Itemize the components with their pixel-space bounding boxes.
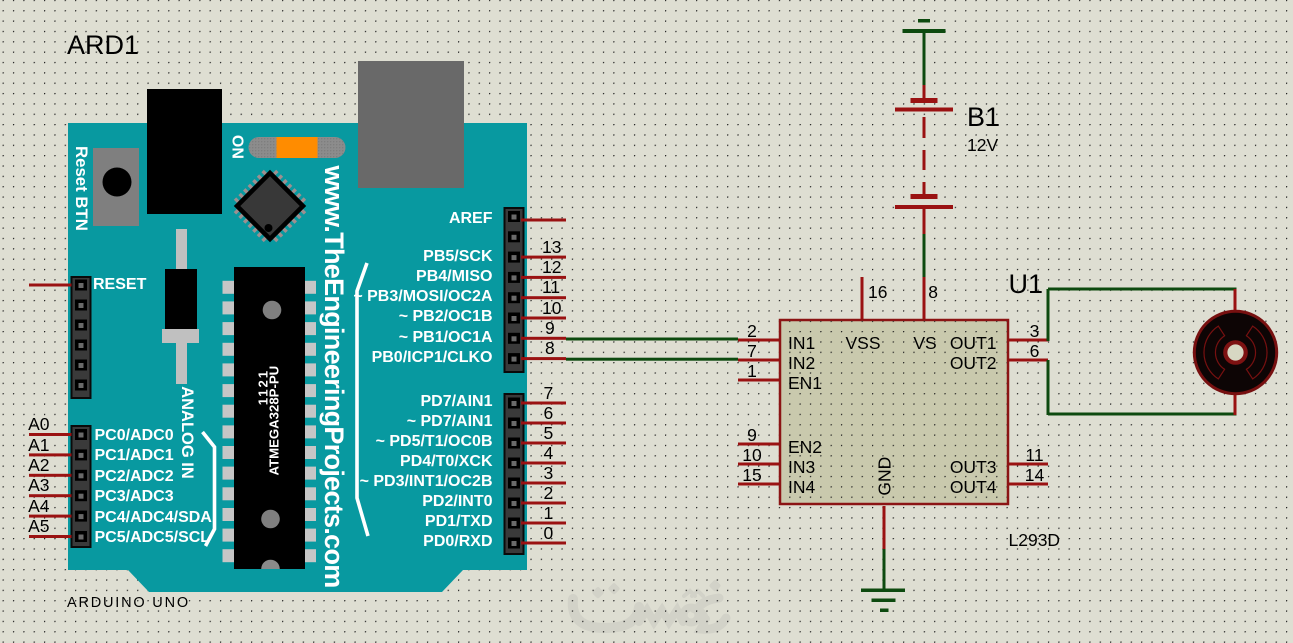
- svg-text:Reset BTN: Reset BTN: [72, 146, 91, 231]
- svg-text:ATMEGA328P-PU: ATMEGA328P-PU: [267, 366, 282, 476]
- svg-text:ON: ON: [228, 135, 245, 159]
- svg-text:ANALOG IN: ANALOG IN: [178, 386, 196, 479]
- svg-text:GND: GND: [874, 457, 894, 496]
